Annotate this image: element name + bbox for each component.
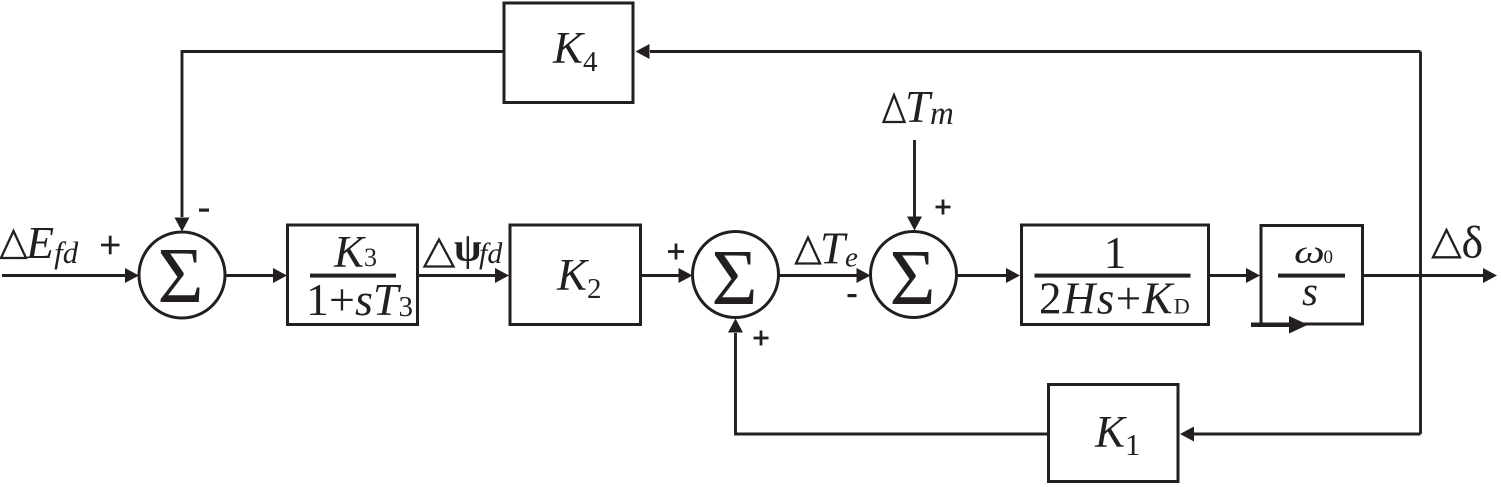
block K3/(1+sT3) (box) — [288, 225, 418, 325]
block K2 (box) — [510, 225, 641, 325]
block w0/s (box) — [1261, 226, 1363, 325]
arrowhead into S3 — [857, 268, 871, 283]
plus sign at S2 left input — [668, 244, 684, 260]
label ΔTe (between S2 and S3) — [796, 224, 858, 274]
label ΔEfd (input) — [1, 217, 79, 270]
minus sign at S1 top — [199, 209, 209, 212]
wire S1 to block K3 — [225, 274, 273, 277]
svg-text:Σ: Σ — [158, 233, 204, 320]
arrowhead into K3 — [273, 268, 287, 283]
label 1/(2Hs+KD) inside box — [1035, 228, 1192, 324]
wire 1/(2Hs+KD) to block w0/s — [1210, 274, 1246, 277]
wire bottom feedback to K1 — [1194, 433, 1421, 436]
label Δψfd (between K3 and K2) — [425, 225, 504, 271]
svg-text:Σ: Σ — [712, 235, 758, 322]
label w0/s inside box — [1278, 234, 1345, 314]
wire K1 to S2 (left and up) — [736, 333, 1049, 434]
svg-text:0: 0 — [1324, 247, 1334, 268]
wire vertical feedback trunk at right — [1419, 52, 1422, 435]
block K1 (box) — [1049, 385, 1179, 482]
arrowhead into S1 — [125, 268, 139, 283]
svg-text:ψ: ψ — [454, 225, 482, 270]
arrowhead into K1 (pointing left) — [1180, 427, 1194, 442]
arrowhead into block w0/s — [1246, 268, 1260, 283]
arrowhead output Δδ — [1483, 268, 1497, 283]
wire S2 to summer S3 (ΔTe) — [779, 274, 858, 277]
wire K2 to summer S2 — [642, 274, 679, 277]
wire K4 to S1 (left and down) — [182, 52, 504, 218]
svg-text:δ: δ — [1462, 216, 1484, 267]
wire w0/s to output Δδ — [1364, 274, 1483, 277]
wire ΔTm into S3 — [913, 140, 916, 217]
label Δδ (output) — [1433, 216, 1483, 267]
label K3/(1+sT3) inside box — [306, 227, 413, 325]
wire top feedback to K4 — [650, 50, 1421, 53]
minus sign at S3 left input — [848, 294, 857, 297]
wire S3 to block 1/(2Hs+KD) — [957, 274, 1007, 277]
summer S3 (circle) — [871, 232, 957, 318]
svg-text:2Hs+KD: 2Hs+KD — [1039, 274, 1191, 324]
block K4 (box) — [504, 3, 633, 103]
arrowhead K1 feedback up into S2 — [728, 319, 743, 333]
integrator initial-condition arrow at bottom of w0/s box — [1251, 316, 1308, 334]
label ΔTm (above S3) — [884, 82, 954, 132]
arrowhead ΔTm down into S3 — [907, 217, 922, 231]
wire K3 to block K2 — [419, 274, 495, 277]
arrowhead into K4 (pointing left) — [636, 44, 650, 59]
plus sign at S2 bottom input — [754, 331, 769, 346]
svg-text:1+sT3: 1+sT3 — [306, 274, 413, 325]
plus sign at S1 input — [101, 236, 120, 255]
arrowhead into K2 — [495, 268, 509, 283]
arrowhead K4 feedback down into S1 — [175, 218, 190, 232]
block 1/(2Hs+KD) (box) — [1022, 225, 1209, 325]
summer S1 (circle) — [139, 232, 225, 318]
wire input ΔEfd to summer S1 — [2, 274, 125, 277]
svg-text:s: s — [1302, 268, 1318, 314]
arrowhead into S2 — [679, 268, 693, 283]
svg-text:Σ: Σ — [890, 235, 936, 322]
arrowhead into block 1/(2Hs+KD) — [1006, 268, 1020, 283]
summer S2 (circle) — [693, 232, 779, 318]
svg-text:ω: ω — [1294, 234, 1325, 270]
svg-text:fd: fd — [479, 237, 503, 270]
svg-text:1: 1 — [1104, 228, 1127, 278]
plus sign at S3 top input — [936, 200, 951, 215]
